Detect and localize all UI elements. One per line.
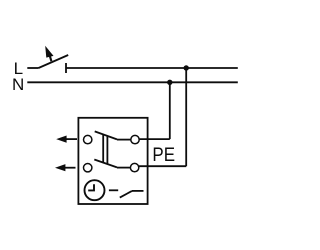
device box outline (78, 118, 147, 204)
junction dot on L line (184, 65, 189, 70)
switch pole 1 blade (95, 131, 117, 139)
wire N drop horizontal into top-right terminal (139, 138, 169, 140)
wire N line (27, 81, 238, 83)
wire L drop vertical (185, 68, 187, 166)
timer contact line (132, 190, 144, 192)
switch S1 fixed contact tick (65, 63, 67, 73)
arrow out top (load feed) (56, 136, 77, 143)
dash link clock to contact (109, 189, 118, 191)
wire N drop vertical (169, 82, 171, 139)
switch pole 2 blade (94, 160, 117, 168)
switch pole 1 contact line (117, 139, 131, 141)
wire L drop horizontal into bottom-right terminal (139, 165, 186, 167)
switch pole 2 contact line (117, 167, 130, 169)
svg-text:PE: PE (152, 143, 175, 165)
timer clock symbol (85, 180, 105, 200)
terminal circle top-left (84, 135, 92, 143)
mechanical link line right (106, 136, 108, 164)
arrow out bottom (load feed) (55, 164, 76, 171)
wire L line right segment (66, 67, 238, 69)
switch S1 manual-actuation cursor arrow (45, 46, 53, 61)
switch S1 blade on L (39, 55, 69, 68)
terminal circle bottom-right (130, 163, 138, 171)
mechanical link line left (102, 134, 104, 162)
terminal circle bottom-left (84, 164, 92, 172)
terminal circle top-right (131, 135, 139, 143)
wire L line left segment (27, 67, 38, 69)
svg-text:N: N (12, 75, 24, 94)
timer contact blade (120, 191, 132, 198)
junction dot on N line (167, 80, 172, 85)
